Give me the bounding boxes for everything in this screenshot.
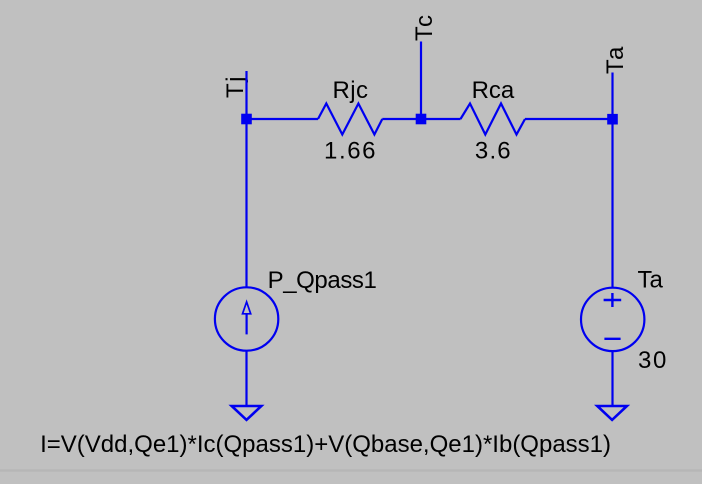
wire: right vertical junction to voltage source (611, 119, 613, 288)
node junction Tj (241, 114, 252, 125)
svg-text:Tc: Tc (411, 13, 438, 41)
wire: Tj junction to Rjc (247, 118, 319, 120)
svg-text:Rjc: Rjc (333, 77, 369, 104)
wire: Tc stub vertical (420, 42, 422, 120)
current source arrow shaft (246, 314, 248, 335)
voltage source Ta circle (581, 288, 644, 351)
svg-text:Rca: Rca (472, 77, 515, 104)
wire: Rca to Ta junction (525, 118, 613, 120)
current source arrow head (243, 302, 251, 314)
wire: voltage source to ground (611, 351, 613, 405)
voltage source minus sign (604, 338, 620, 340)
wire: Tj stub vertical (245, 71, 247, 119)
wire: Ta stub vertical (611, 73, 613, 120)
voltage source plus sign (604, 299, 622, 301)
svg-text:Tj: Tj (222, 75, 249, 98)
resistor Rjc (318, 104, 382, 135)
node junction Tc (416, 114, 427, 125)
wire: current source to ground (245, 351, 247, 406)
wire: Rjc to Tc junction (382, 118, 421, 120)
node junction Ta (607, 114, 618, 125)
svg-text:Ta: Ta (638, 266, 664, 293)
resistor Rca (461, 104, 526, 135)
svg-text:Ta: Ta (602, 45, 629, 74)
ground left (232, 406, 262, 420)
window edge line (0, 469, 702, 471)
svg-text:1.66: 1.66 (324, 138, 377, 165)
svg-text:30: 30 (638, 347, 668, 374)
svg-text:P_Qpass1: P_Qpass1 (268, 267, 377, 294)
svg-text:3.6: 3.6 (475, 137, 512, 164)
ground right (597, 406, 627, 420)
current source P_Qpass1 circle (215, 287, 278, 350)
svg-text:I=V(Vdd,Qe1)*Ic(Qpass1)+V(Qbas: I=V(Vdd,Qe1)*Ic(Qpass1)+V(Qbase,Qe1)*Ib(… (40, 431, 611, 458)
wire: Tc junction to Rca (421, 118, 461, 120)
wire: left vertical junction to current source (245, 119, 247, 287)
